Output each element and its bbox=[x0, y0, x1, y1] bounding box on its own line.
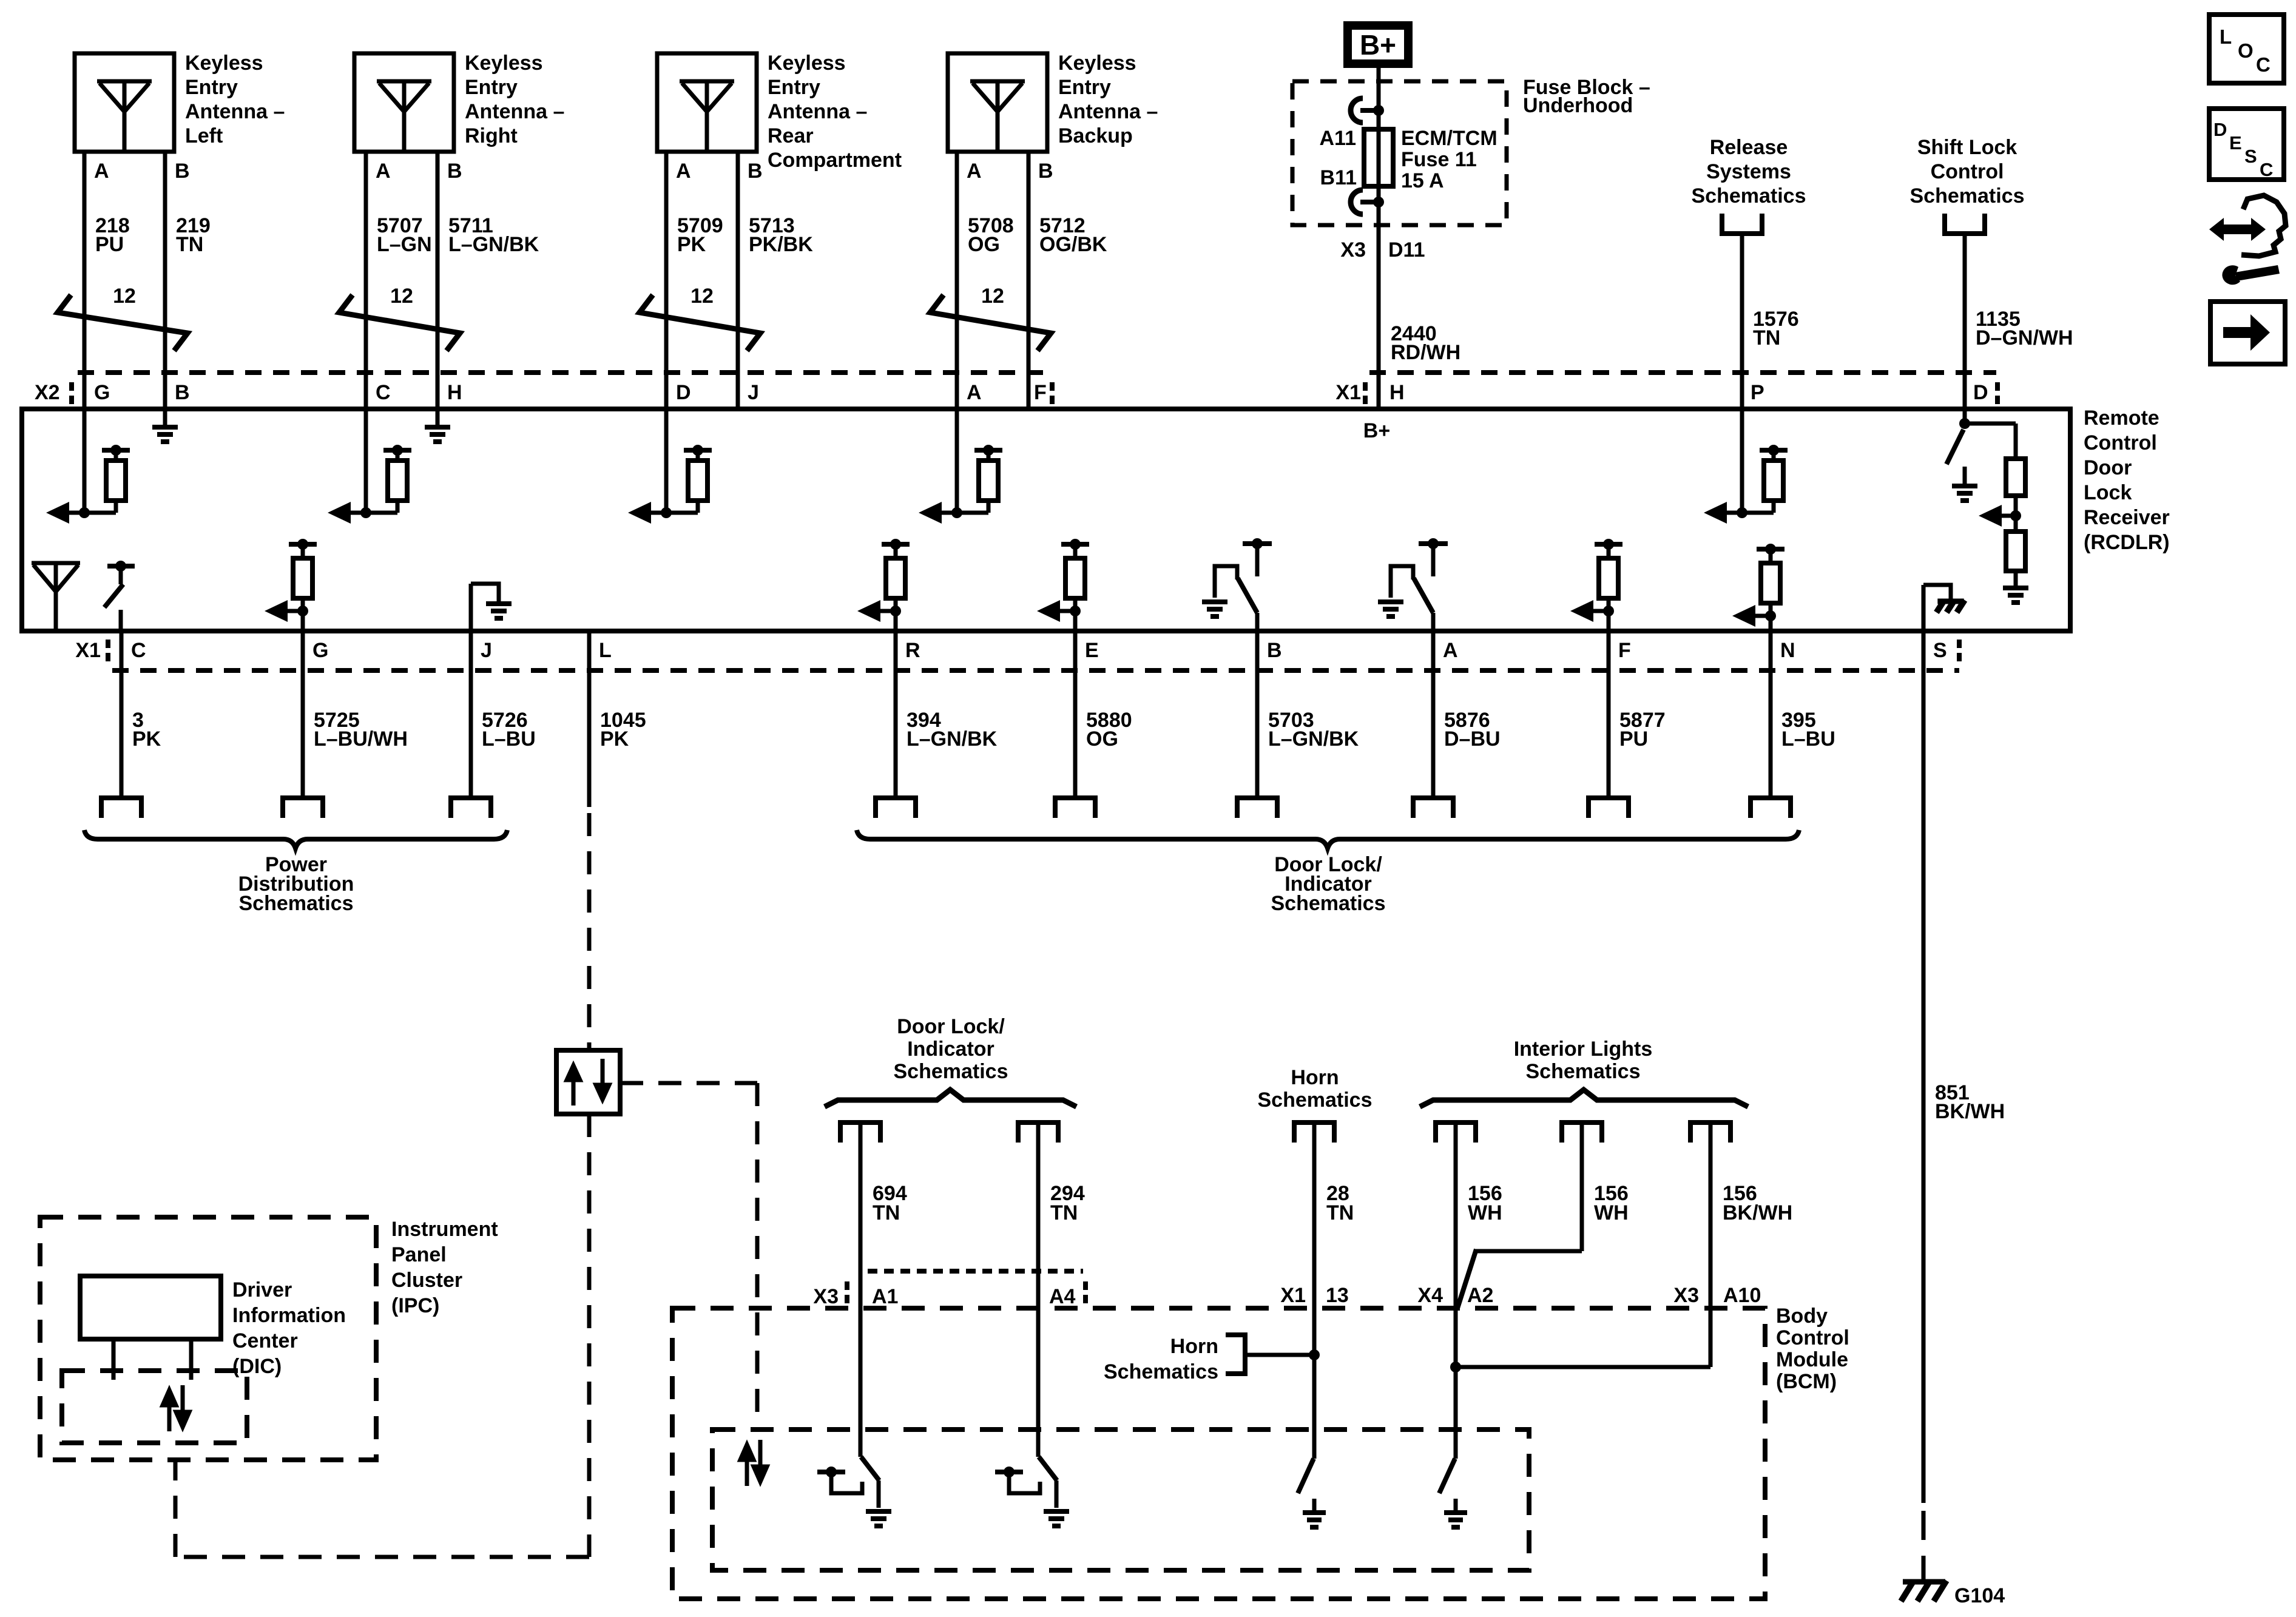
X1 pin H letter bbox=[1389, 381, 1405, 404]
RCDLR antenna input circuit at pin D bbox=[628, 409, 712, 524]
svg-text:D–GN/WH: D–GN/WH bbox=[1976, 326, 2073, 349]
brace: power distribution group bbox=[84, 830, 507, 848]
antenna U3 label bbox=[768, 52, 902, 172]
RCDLR internal ground at pin H bbox=[425, 409, 450, 442]
node B+ bus label inside RCDLR bbox=[1363, 419, 1390, 442]
svg-text:X4: X4 bbox=[1417, 1284, 1443, 1307]
wire label 5876 D&#8211;BU bbox=[1444, 709, 1501, 751]
svg-text:G: G bbox=[312, 639, 328, 662]
svg-text:E: E bbox=[2229, 132, 2242, 154]
svg-text:Antenna –: Antenna – bbox=[185, 100, 285, 123]
svg-text:B: B bbox=[1038, 160, 1053, 183]
svg-text:Antenna –: Antenna – bbox=[1058, 100, 1158, 123]
svg-text:L: L bbox=[599, 639, 612, 662]
wire: antenna U3 pin A to X2 pin D bbox=[664, 152, 669, 409]
svg-text:Left: Left bbox=[185, 124, 223, 147]
twisted pair mark 12 for antenna U3 bbox=[640, 285, 760, 351]
svg-text:C: C bbox=[131, 639, 146, 662]
svg-text:(DIC): (DIC) bbox=[232, 1355, 282, 1378]
svg-text:D–BU: D–BU bbox=[1444, 727, 1501, 751]
svg-text:X1: X1 bbox=[75, 639, 101, 662]
keyless entry antenna U3 box bbox=[657, 53, 757, 152]
RCDLR internal switch to pin C bbox=[104, 561, 135, 631]
svg-text:Door Lock/: Door Lock/ bbox=[897, 1015, 1005, 1038]
wire label 5713 PK/BK bbox=[749, 214, 813, 256]
battery feed B+ bbox=[1348, 25, 1408, 64]
wire from X1 pin A to terminal bbox=[1413, 631, 1453, 818]
svg-text:A10: A10 bbox=[1723, 1284, 1761, 1307]
source terminal for wire 156 BK/WH bbox=[1690, 1122, 1730, 1143]
svg-text:RD/WH: RD/WH bbox=[1391, 341, 1460, 364]
svg-text:Antenna –: Antenna – bbox=[768, 100, 867, 123]
Shift Lock source bracket bbox=[1945, 214, 1985, 234]
connector X1 bottom dashed line bbox=[112, 668, 1959, 673]
RCDLR output circuit at pin R bbox=[857, 539, 910, 631]
wire: antenna U3 pin B to X2 pin J bbox=[736, 152, 740, 409]
wire label 219 TN bbox=[176, 214, 211, 256]
wire from X1 pin F to terminal bbox=[1589, 631, 1629, 818]
wire 851 BK/WH from pin S bbox=[1922, 631, 1926, 1580]
X1 pin P letter bbox=[1751, 381, 1764, 404]
Door Lock Indicator Schematics label (BCM feeds) bbox=[894, 1015, 1008, 1083]
svg-text:X3: X3 bbox=[1673, 1284, 1699, 1307]
svg-text:C: C bbox=[2256, 53, 2271, 76]
svg-text:PK: PK bbox=[600, 727, 629, 751]
svg-text:Underhood: Underhood bbox=[1523, 94, 1633, 117]
svg-text:X1: X1 bbox=[1280, 1284, 1306, 1307]
wire label 294 TN bbox=[1050, 1182, 1085, 1224]
wire 28 TN to BCM pin 13 bbox=[1312, 1122, 1317, 1459]
svg-text:Information: Information bbox=[232, 1304, 346, 1327]
svg-text:BK/WH: BK/WH bbox=[1935, 1100, 2005, 1123]
svg-text:P: P bbox=[1751, 381, 1764, 404]
svg-text:Keyless: Keyless bbox=[465, 52, 543, 75]
wire from X1 pin E to terminal bbox=[1055, 631, 1095, 818]
svg-text:A1: A1 bbox=[872, 1285, 898, 1308]
svg-text:Door: Door bbox=[2084, 456, 2132, 479]
svg-text:Compartment: Compartment bbox=[768, 149, 902, 172]
svg-text:F: F bbox=[1034, 381, 1047, 404]
svg-text:D11: D11 bbox=[1388, 238, 1425, 262]
wire label 5725 L&#8211;BU/WH bbox=[314, 709, 408, 751]
wire 2440 RD/WH: fuse to RCDLR pin H bbox=[1377, 202, 1381, 409]
pin labels A B of antenna U3 bbox=[676, 160, 763, 183]
svg-text:X3: X3 bbox=[813, 1285, 839, 1308]
svg-text:Lock: Lock bbox=[2084, 481, 2132, 504]
RCDLR antenna input circuit at pin G bbox=[46, 409, 130, 524]
connector X1 top end terminator after pin D bbox=[1995, 382, 2000, 404]
svg-text:Schematics: Schematics bbox=[1692, 184, 1806, 208]
svg-text:(IPC): (IPC) bbox=[391, 1294, 439, 1317]
svg-text:Body: Body bbox=[1776, 1305, 1828, 1328]
svg-text:F: F bbox=[1618, 639, 1631, 662]
svg-text:A: A bbox=[967, 381, 982, 404]
X2 pin letters D J bbox=[676, 381, 759, 404]
svg-text:Right: Right bbox=[465, 124, 518, 147]
wire label 394 L&#8211;GN/BK bbox=[907, 709, 998, 751]
ground G104 bbox=[1901, 1581, 2005, 1607]
svg-text:L–GN/BK: L–GN/BK bbox=[448, 233, 539, 256]
RCDLR pin D switch to ground bbox=[1947, 409, 1977, 501]
svg-text:S: S bbox=[2244, 146, 2257, 167]
twisted pair mark 12 for antenna U4 bbox=[930, 285, 1051, 351]
svg-text:Receiver: Receiver bbox=[2084, 506, 2170, 529]
svg-text:OG: OG bbox=[968, 233, 1000, 256]
wire from X1 pin C to terminal bbox=[101, 631, 141, 818]
RCDLR internal antenna symbol bbox=[32, 563, 80, 631]
pin labels A B of antenna U2 bbox=[376, 160, 462, 183]
svg-text:Center: Center bbox=[232, 1329, 298, 1352]
svg-text:A: A bbox=[1443, 639, 1458, 662]
svg-text:B+: B+ bbox=[1360, 29, 1396, 61]
X1 pin J letter bbox=[481, 639, 492, 662]
driver information center DIC box bbox=[80, 1276, 221, 1339]
svg-text:Schematics: Schematics bbox=[239, 892, 354, 915]
wire 156 WH to BCM pin A2 bbox=[1454, 1122, 1458, 1459]
svg-text:TN: TN bbox=[1326, 1201, 1354, 1224]
Interior Lights Schematics label bbox=[1514, 1038, 1653, 1083]
instrument panel cluster IPC dashed box bbox=[40, 1217, 376, 1460]
svg-text:A: A bbox=[376, 160, 391, 183]
RCDLR antenna input circuit at pin C bbox=[328, 409, 411, 524]
svg-text:Rear: Rear bbox=[768, 124, 814, 147]
Horn Schematics label (top) bbox=[1258, 1066, 1373, 1112]
svg-text:J: J bbox=[481, 639, 492, 662]
connector X3 dotted line (A1 A4) bbox=[847, 1271, 1086, 1303]
connector X1 bottom end terminator after pin S bbox=[1957, 640, 1962, 661]
wire: antenna U1 pin A to X2 pin G bbox=[83, 152, 87, 409]
svg-text:L–BU: L–BU bbox=[482, 727, 536, 751]
svg-text:Control: Control bbox=[1776, 1326, 1849, 1349]
svg-text:Schematics: Schematics bbox=[894, 1060, 1008, 1083]
source terminal for wire 694 TN bbox=[840, 1122, 880, 1143]
fuse F11 ECM/TCM 15A bbox=[1364, 110, 1393, 202]
svg-text:A: A bbox=[676, 160, 691, 183]
BCM label bbox=[1776, 1305, 1849, 1393]
wire label 3 PK bbox=[132, 709, 161, 751]
wire: antenna U4 pin A to X2 pin A bbox=[955, 152, 959, 409]
Door Lock Indicator Schematics label (main) bbox=[1271, 853, 1386, 915]
X1 pin R letter bbox=[905, 639, 920, 662]
RCDLR internal ground at pin B bbox=[152, 409, 178, 442]
X1 pin C letter bbox=[131, 639, 146, 662]
svg-text:R: R bbox=[905, 639, 920, 662]
wire label 218 PU bbox=[95, 214, 130, 256]
svg-text:(RCDLR): (RCDLR) bbox=[2084, 531, 2170, 554]
RCDLR output circuit at pin N bbox=[1732, 544, 1784, 631]
svg-text:(BCM): (BCM) bbox=[1776, 1370, 1837, 1393]
pin labels A B of antenna U4 bbox=[967, 160, 1053, 183]
wire label 156 WH bbox=[1594, 1182, 1629, 1224]
connector X1 top label bbox=[1335, 381, 1365, 404]
svg-text:B+: B+ bbox=[1363, 419, 1390, 442]
connector X2 end terminator after pin F bbox=[1050, 382, 1055, 404]
svg-text:Shift Lock: Shift Lock bbox=[1917, 136, 2017, 159]
svg-text:PK/BK: PK/BK bbox=[749, 233, 813, 256]
X2 pin letters A F bbox=[967, 381, 1047, 404]
connector clip A11 bbox=[1351, 98, 1384, 123]
svg-text:O: O bbox=[2238, 39, 2254, 62]
keyless entry antenna U2 box bbox=[354, 53, 454, 152]
svg-text:PK: PK bbox=[132, 727, 161, 751]
connector X2 label bbox=[35, 381, 72, 404]
svg-text:A2: A2 bbox=[1467, 1284, 1493, 1307]
wire 694 TN to BCM pin A1 bbox=[859, 1122, 863, 1457]
wire label 1576 TN bbox=[1753, 308, 1799, 349]
svg-text:WH: WH bbox=[1594, 1201, 1629, 1224]
BCM switch to ground at pin 13 bbox=[1298, 1459, 1326, 1527]
svg-text:Systems: Systems bbox=[1706, 160, 1791, 183]
svg-text:J: J bbox=[748, 381, 759, 404]
svg-text:L–GN/BK: L–GN/BK bbox=[1268, 727, 1359, 751]
svg-text:Cluster: Cluster bbox=[391, 1269, 462, 1292]
svg-text:A4: A4 bbox=[1049, 1285, 1076, 1308]
pin labels A B of antenna U1 bbox=[94, 160, 190, 183]
svg-text:S: S bbox=[1933, 639, 1947, 662]
svg-text:15 A: 15 A bbox=[1401, 169, 1444, 192]
antenna U2 label bbox=[465, 52, 564, 147]
connector X2 dashed line bbox=[78, 370, 1053, 375]
serial data gateway box bbox=[556, 1050, 620, 1114]
svg-text:B: B bbox=[447, 160, 462, 183]
X2 pin letters G B bbox=[94, 381, 190, 404]
RCDLR output circuit at pin E bbox=[1037, 539, 1089, 631]
IPC serial data arrows bbox=[163, 1385, 189, 1431]
BCM inner dashed box bbox=[712, 1430, 1529, 1570]
svg-text:Driver: Driver bbox=[232, 1278, 292, 1301]
svg-text:TN: TN bbox=[176, 233, 203, 256]
svg-text:Control: Control bbox=[1931, 160, 2004, 183]
svg-text:Interior Lights: Interior Lights bbox=[1514, 1038, 1653, 1061]
RCDLR internal ground at pin J bbox=[471, 584, 512, 631]
wire label 5880 OG bbox=[1086, 709, 1132, 751]
brace: interior lights feeds bbox=[1420, 1090, 1748, 1107]
svg-text:L–GN: L–GN bbox=[377, 233, 432, 256]
svg-text:Schematics: Schematics bbox=[1271, 892, 1386, 915]
brace: door lock indicator group bbox=[857, 830, 1799, 848]
dashed serial data wire below gateway bbox=[175, 1114, 589, 1557]
svg-text:D: D bbox=[2213, 119, 2227, 140]
svg-text:B: B bbox=[1267, 639, 1282, 662]
svg-text:X1: X1 bbox=[1335, 381, 1361, 404]
RCDLR pin D divider resistors bbox=[1965, 424, 2028, 603]
svg-text:Entry: Entry bbox=[185, 76, 238, 99]
X1 pin D letter bbox=[1973, 381, 1988, 404]
svg-text:L–BU: L–BU bbox=[1781, 727, 1835, 751]
svg-text:Backup: Backup bbox=[1058, 124, 1133, 147]
svg-text:C: C bbox=[376, 381, 391, 404]
svg-text:TN: TN bbox=[1050, 1201, 1078, 1224]
BCM switch to ground at pin A2 bbox=[1439, 1459, 1467, 1527]
X1 pin S letter bbox=[1933, 639, 1947, 662]
icon hand with arrows and wrench bbox=[2209, 195, 2286, 285]
svg-text:Horn: Horn bbox=[1170, 1335, 1218, 1358]
svg-text:A: A bbox=[967, 160, 982, 183]
RCDLR module box bbox=[22, 409, 2070, 631]
antenna U1 label bbox=[185, 52, 285, 147]
svg-text:Keyless: Keyless bbox=[1058, 52, 1136, 75]
svg-text:12: 12 bbox=[390, 285, 413, 308]
svg-text:OG: OG bbox=[1086, 727, 1118, 751]
svg-text:Entry: Entry bbox=[465, 76, 518, 99]
wire 294 TN to BCM pin A4 bbox=[1036, 1122, 1041, 1457]
RCDLR internal chassis ground at pin S bbox=[1923, 585, 1965, 631]
wire 1135 D-GN/WH to RCDLR pin D bbox=[1963, 234, 1967, 409]
wire label 156 BK/WH bbox=[1723, 1182, 1792, 1224]
wire label 395 L&#8211;BU bbox=[1781, 709, 1835, 751]
X1 pin L letter bbox=[599, 639, 612, 662]
wire label 5708 OG bbox=[968, 214, 1014, 256]
X1 pin F letter bbox=[1618, 639, 1631, 662]
Release Systems source bracket bbox=[1722, 214, 1762, 234]
Power Distribution Schematics label bbox=[238, 853, 354, 915]
X2 pin letters C H bbox=[376, 381, 462, 404]
wire label 5703 L&#8211;GN/BK bbox=[1268, 709, 1359, 751]
svg-text:Schematics: Schematics bbox=[1526, 1060, 1641, 1083]
BCM connector labels X1 13 X4 A2 X3 A10 bbox=[1280, 1284, 1761, 1307]
X1 pin N letter bbox=[1780, 639, 1795, 662]
svg-text:Schematics: Schematics bbox=[1258, 1089, 1373, 1112]
wire label 5709 PK bbox=[677, 214, 723, 256]
Release Systems Schematics label bbox=[1692, 136, 1806, 208]
wire: antenna U1 pin B to X2 pin B bbox=[163, 152, 167, 409]
keyless entry antenna U1 box bbox=[75, 53, 174, 152]
svg-text:C: C bbox=[2260, 159, 2273, 180]
RCDLR output circuit at pin G bbox=[265, 539, 317, 631]
svg-text:H: H bbox=[447, 381, 462, 404]
svg-text:TN: TN bbox=[1753, 326, 1780, 349]
svg-text:Entry: Entry bbox=[768, 76, 820, 99]
X1 pin B letter bbox=[1267, 639, 1282, 662]
svg-text:L–GN/BK: L–GN/BK bbox=[907, 727, 998, 751]
svg-text:E: E bbox=[1085, 639, 1099, 662]
RCDLR internal switch at pin A bbox=[1378, 538, 1448, 631]
IPC serial data dashed box bbox=[62, 1371, 247, 1443]
DIC connection stubs bbox=[113, 1339, 191, 1380]
svg-text:OG/BK: OG/BK bbox=[1039, 233, 1107, 256]
svg-text:PK: PK bbox=[677, 233, 706, 256]
wire: B+ to fuse bbox=[1377, 68, 1381, 110]
svg-text:Module: Module bbox=[1776, 1348, 1848, 1371]
wire 156 WH second with jog to pin A2 bbox=[1457, 1122, 1582, 1308]
wire label 694 TN bbox=[873, 1182, 907, 1224]
BCM outer dashed box bbox=[672, 1308, 1765, 1599]
twisted pair mark 12 for antenna U1 bbox=[58, 285, 187, 351]
BCM door lock switch at pin A4 bbox=[995, 1457, 1069, 1526]
svg-text:D: D bbox=[1973, 381, 1988, 404]
svg-text:B: B bbox=[175, 381, 190, 404]
svg-text:13: 13 bbox=[1326, 1284, 1349, 1307]
connector X3 labels A1 A4 bbox=[813, 1285, 1075, 1308]
wire label 5712 OG/BK bbox=[1039, 214, 1107, 256]
DIC label bbox=[232, 1278, 346, 1378]
svg-text:Remote: Remote bbox=[2084, 407, 2159, 430]
wire from X1 pin R to terminal bbox=[876, 631, 916, 818]
connector X3 D11 labels bbox=[1340, 238, 1425, 262]
wire label 5707 L&#8211;GN bbox=[377, 214, 432, 256]
wire 1045 PK serial data from pin L (dashed below) bbox=[587, 631, 592, 1050]
svg-text:G104: G104 bbox=[1954, 1584, 2005, 1607]
svg-text:Keyless: Keyless bbox=[185, 52, 263, 75]
icon forward arrow box bbox=[2210, 302, 2285, 364]
svg-text:B11: B11 bbox=[1320, 166, 1357, 189]
svg-text:PU: PU bbox=[1619, 727, 1648, 751]
svg-text:12: 12 bbox=[981, 285, 1004, 308]
BCM serial data arrows bbox=[740, 1440, 767, 1486]
svg-text:Keyless: Keyless bbox=[768, 52, 846, 75]
wire label 1045 PK bbox=[600, 709, 646, 751]
svg-text:A11: A11 bbox=[1320, 127, 1357, 150]
svg-text:ECM/TCM: ECM/TCM bbox=[1401, 127, 1497, 150]
twisted pair mark 12 for antenna U2 bbox=[339, 285, 460, 351]
svg-text:D: D bbox=[676, 381, 691, 404]
svg-text:Entry: Entry bbox=[1058, 76, 1111, 99]
RCDLR output circuit at pin F bbox=[1570, 539, 1622, 631]
wire from X1 pin B to terminal bbox=[1237, 631, 1277, 818]
svg-text:12: 12 bbox=[690, 285, 714, 308]
wire label 5711 L&#8211;GN/BK bbox=[448, 214, 539, 256]
Horn Schematics label (inside BCM) bbox=[1104, 1335, 1320, 1383]
svg-text:X3: X3 bbox=[1340, 238, 1366, 262]
Shift Lock Control Schematics label bbox=[1910, 136, 2025, 208]
fuse labels bbox=[1320, 127, 1497, 192]
svg-text:WH: WH bbox=[1468, 1201, 1502, 1224]
svg-text:Antenna –: Antenna – bbox=[465, 100, 564, 123]
wire label 1135 D-GN/WH bbox=[1976, 308, 2073, 349]
keyless entry antenna U4 box bbox=[948, 53, 1047, 152]
junction dot at pin A2 wire bbox=[1450, 1362, 1461, 1372]
svg-text:12: 12 bbox=[113, 285, 136, 308]
wire from X1 pin G to terminal bbox=[283, 631, 323, 818]
svg-text:Indicator: Indicator bbox=[907, 1038, 994, 1061]
svg-text:B: B bbox=[748, 160, 763, 183]
connector X1 top dashed line bbox=[1369, 370, 1996, 375]
wire label 2440 RD/WH bbox=[1391, 322, 1460, 364]
svg-text:G: G bbox=[94, 381, 110, 404]
svg-text:L: L bbox=[2220, 25, 2232, 48]
wire label 851 BK/WH bbox=[1935, 1081, 2005, 1123]
icon LOC box bbox=[2209, 15, 2284, 83]
svg-text:X2: X2 bbox=[35, 381, 60, 404]
connector clip B11 bbox=[1351, 190, 1384, 214]
svg-text:L–BU/WH: L–BU/WH bbox=[314, 727, 408, 751]
svg-text:TN: TN bbox=[873, 1201, 900, 1224]
source terminal for wire 294 TN bbox=[1018, 1122, 1058, 1143]
wire 1576 TN to RCDLR pin P bbox=[1740, 234, 1744, 409]
X1 pin G letter bbox=[312, 639, 328, 662]
source terminal for wire 156 WH bbox=[1562, 1122, 1602, 1143]
svg-text:Panel: Panel bbox=[391, 1243, 447, 1266]
svg-text:H: H bbox=[1389, 381, 1405, 404]
svg-text:Schematics: Schematics bbox=[1104, 1360, 1218, 1383]
wire label 5877 PU bbox=[1619, 709, 1666, 751]
fuse block label bbox=[1523, 76, 1650, 117]
connector X1 bottom label bbox=[75, 639, 108, 662]
dashed serial data wire to BCM bbox=[620, 1083, 757, 1430]
RCDLR input circuit at pin P bbox=[1704, 409, 1788, 524]
IPC label bbox=[391, 1218, 498, 1317]
RCDLR label bbox=[2084, 407, 2170, 554]
wire label 5726 L&#8211;BU bbox=[482, 709, 536, 751]
svg-text:B: B bbox=[175, 160, 190, 183]
svg-text:BK/WH: BK/WH bbox=[1723, 1201, 1792, 1224]
brace: door lock feeds bbox=[825, 1090, 1076, 1107]
svg-text:Schematics: Schematics bbox=[1910, 184, 2025, 208]
wire: antenna U4 pin B to X2 pin F bbox=[1027, 152, 1031, 409]
svg-text:Release: Release bbox=[1710, 136, 1788, 159]
wire: antenna U2 pin A to X2 pin C bbox=[364, 152, 368, 409]
source terminal for wire 156 WH bbox=[1436, 1122, 1476, 1143]
